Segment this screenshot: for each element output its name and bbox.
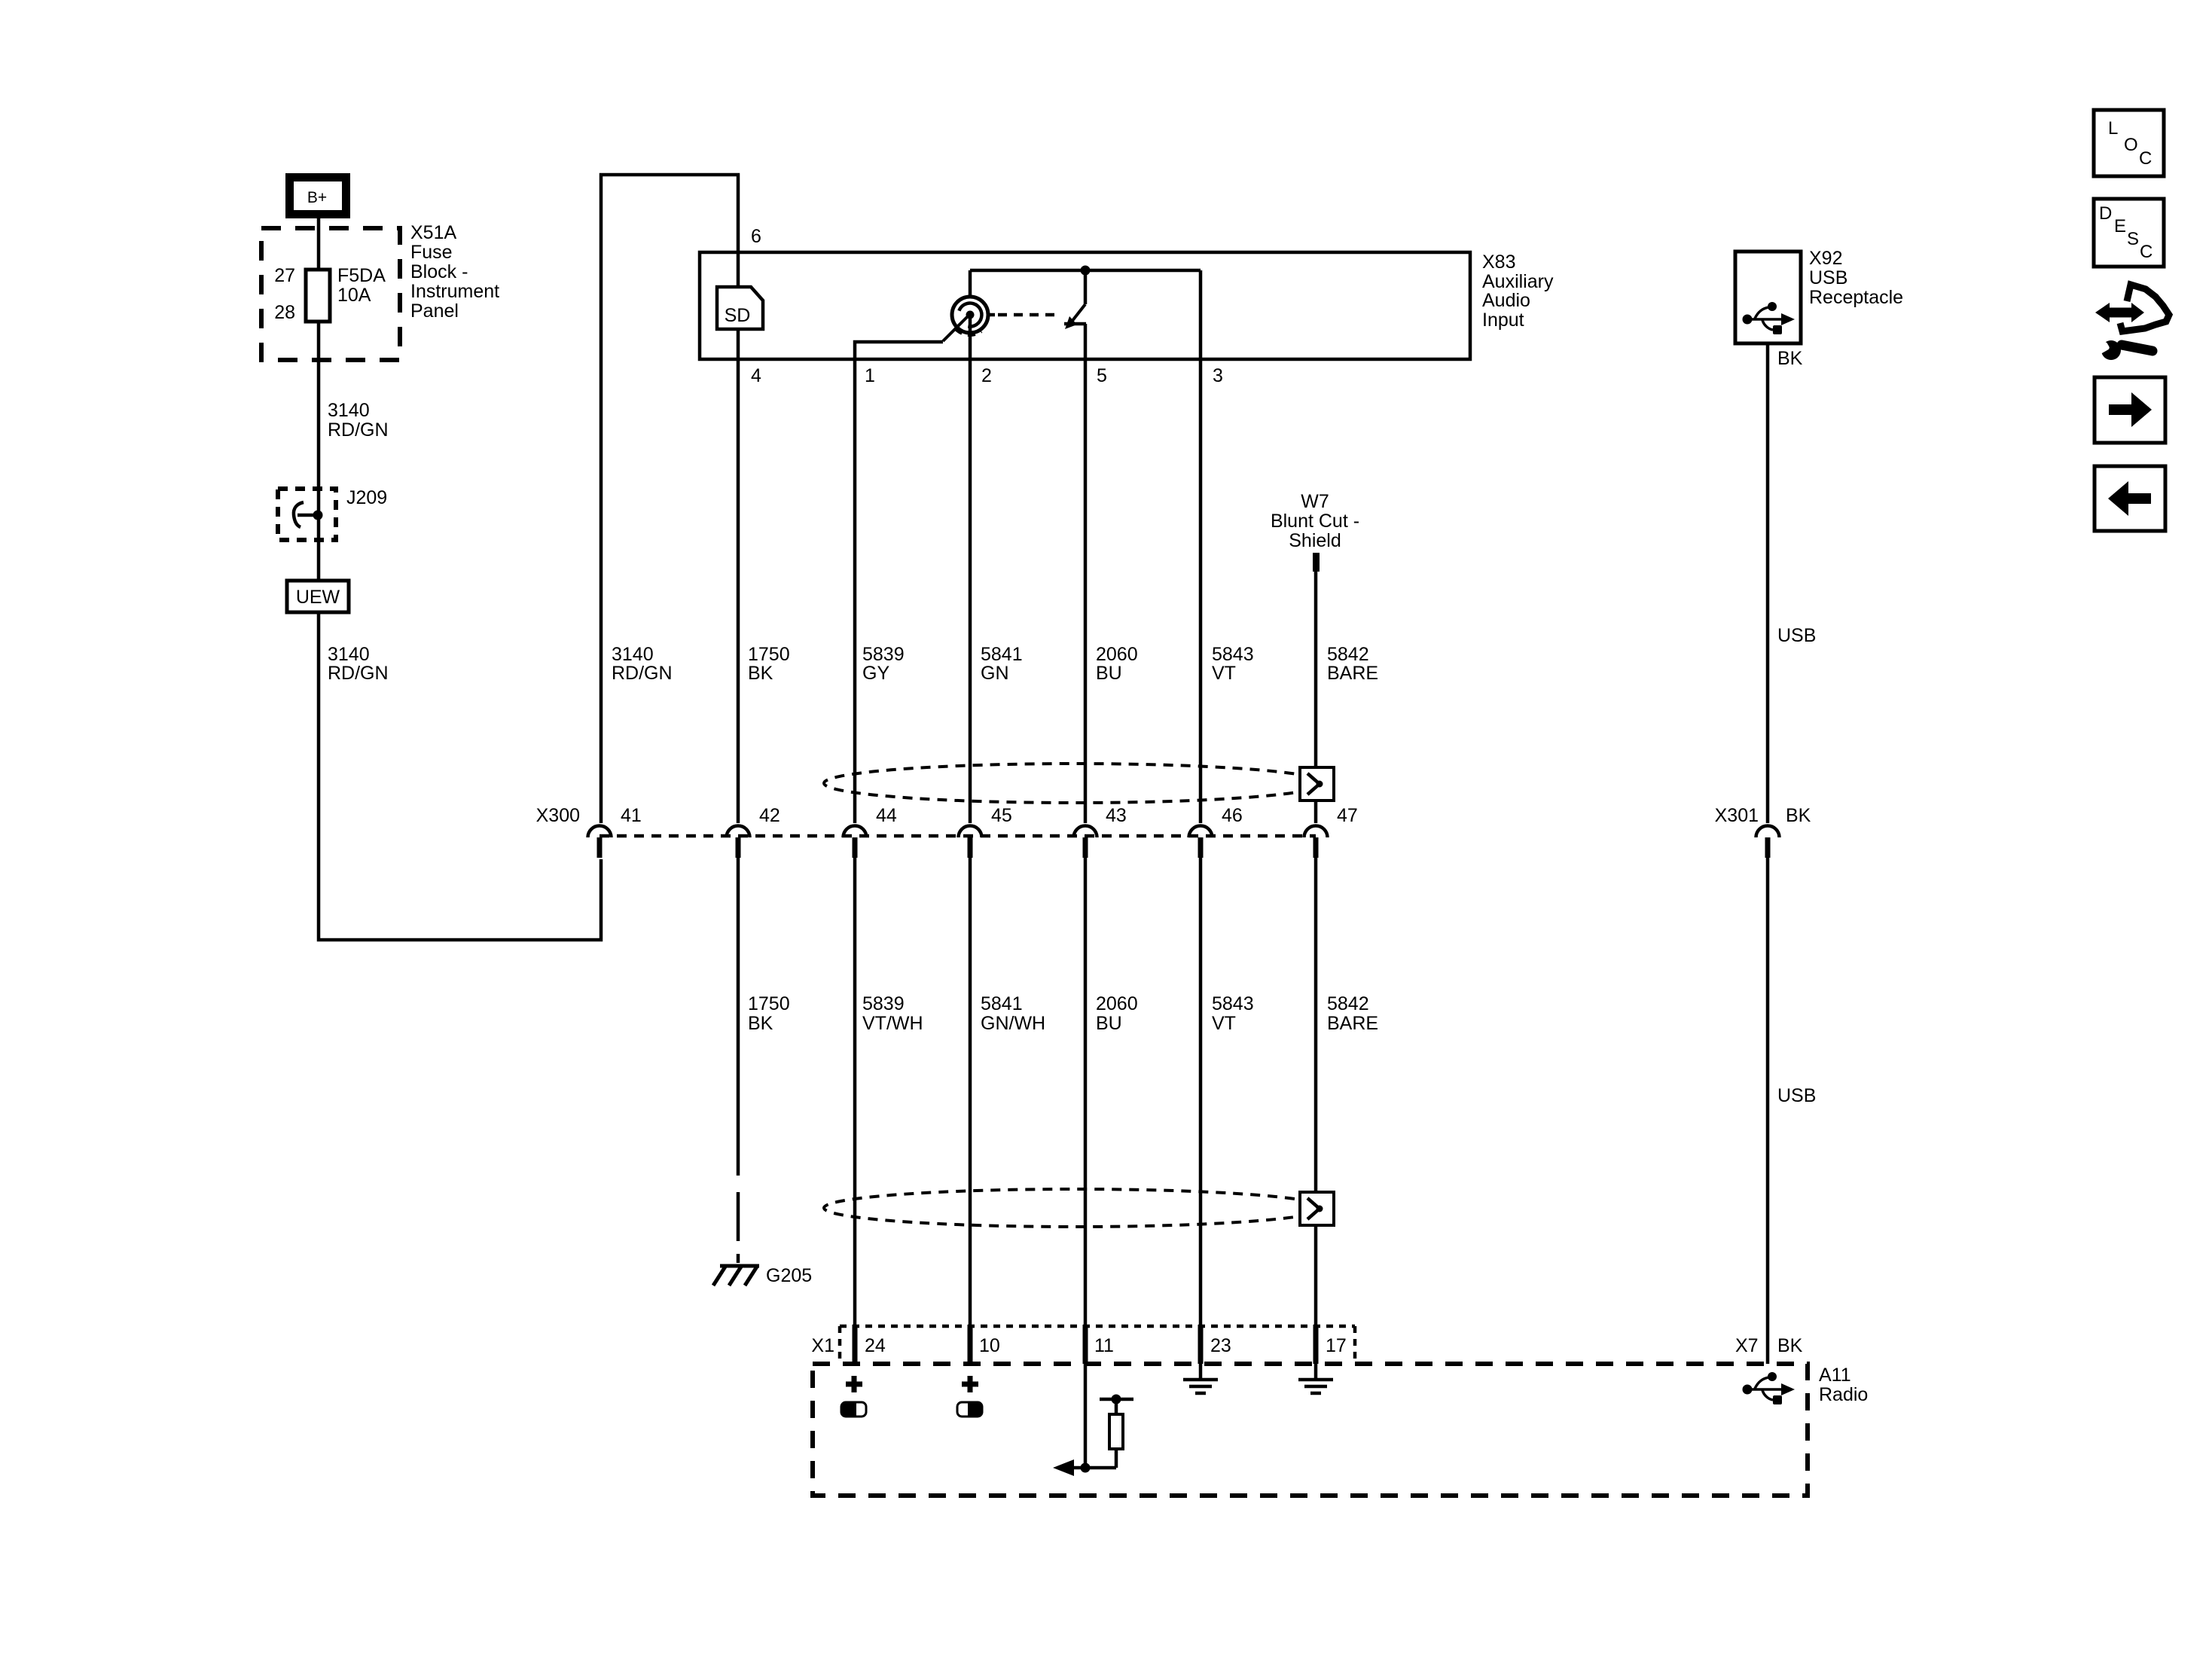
label A11 Radio [1819, 1365, 1868, 1405]
svg-text:3140: 3140 [612, 644, 654, 665]
svg-text:5841: 5841 [981, 993, 1023, 1014]
wire label 5842 BARE [1327, 993, 1378, 1034]
wire label 5842 BARE [1327, 644, 1378, 684]
svg-text:3140: 3140 [328, 644, 370, 665]
svg-text:5842: 5842 [1327, 644, 1369, 665]
svg-text:C: C [2140, 242, 2153, 262]
svg-text:X300: X300 [536, 805, 580, 826]
wire X83 pin 1 to X300 44 (5839 GY) [853, 359, 857, 823]
svg-text:C: C [2139, 148, 2152, 169]
svg-text:10A: 10A [337, 285, 371, 306]
svg-text:47: 47 [1337, 805, 1358, 826]
connector X1 pin 10 stub [968, 1325, 973, 1364]
icon box DESC [2094, 199, 2164, 267]
svg-text:X83: X83 [1482, 252, 1515, 273]
label X51A Fuse Block - Instrument Panel [410, 222, 499, 322]
wire fuse to UEW [317, 322, 321, 581]
wire X92 to X301 [1766, 343, 1770, 823]
connector X300 dashed row [600, 834, 1316, 838]
svg-text:3140: 3140 [328, 400, 370, 421]
splice J209 [278, 487, 387, 540]
wire 5842 BARE to X300 47 [1314, 571, 1318, 823]
svg-text:Fuse: Fuse [410, 242, 453, 263]
wire label 5843 VT [1212, 644, 1254, 684]
svg-text:BK: BK [748, 1013, 773, 1034]
svg-text:GN: GN [981, 663, 1009, 684]
svg-text:L: L [2108, 118, 2118, 139]
wire label 5843 VT [1212, 993, 1254, 1034]
wire 5839 VT/WH to X1 24 [853, 858, 857, 1326]
svg-text:5843: 5843 [1212, 993, 1254, 1014]
connector X1 pin 11 stub [1083, 1325, 1088, 1364]
wire label 2060 BU [1096, 993, 1138, 1034]
svg-text:2060: 2060 [1096, 993, 1138, 1014]
svg-text:Shield: Shield [1289, 530, 1341, 551]
speaker output + (pin 10) [957, 1376, 983, 1417]
connector X1 pin 23 stub [1198, 1325, 1204, 1364]
svg-text:G205: G205 [766, 1265, 812, 1286]
connector X301 [1756, 826, 1780, 858]
ground symbol (pin 23) [1183, 1364, 1218, 1393]
connector X300 pin 47 half-circle [1304, 826, 1328, 858]
svg-text:46: 46 [1222, 805, 1243, 826]
wire 5841 GN/WH to X1 10 [969, 858, 972, 1326]
svg-text:4: 4 [751, 365, 761, 386]
svg-text:5841: 5841 [981, 644, 1023, 665]
svg-text:RD/GN: RD/GN [328, 663, 389, 684]
shield loop (lower) [824, 1189, 1326, 1227]
ground G205 (chassis) [713, 1265, 812, 1286]
svg-text:Panel: Panel [410, 300, 459, 322]
connector X1 pin 24 stub [853, 1325, 858, 1364]
svg-text:6: 6 [751, 226, 761, 247]
svg-text:S: S [2127, 229, 2139, 249]
connector X92 USB Receptacle [1735, 252, 1801, 343]
svg-text:J209: J209 [346, 487, 387, 508]
fuse F5DA 10A [306, 265, 386, 322]
wire label 3140 RD/GN [612, 644, 673, 684]
svg-text:1750: 1750 [748, 993, 790, 1014]
wire label 1750 BK [748, 993, 790, 1034]
svg-text:41: 41 [621, 805, 642, 826]
svg-text:2: 2 [981, 365, 992, 386]
wire B+ to fuse [317, 218, 321, 271]
svg-text:USB: USB [1777, 1085, 1816, 1106]
svg-text:10: 10 [979, 1335, 1000, 1356]
svg-text:44: 44 [876, 805, 897, 826]
shield loop (upper) [824, 764, 1326, 803]
svg-text:B+: B+ [307, 189, 327, 206]
svg-text:5: 5 [1097, 365, 1107, 386]
connector X1 dotted box [840, 1326, 1355, 1364]
wire label 5839 VT/WH [862, 993, 923, 1034]
svg-text:USB: USB [1809, 267, 1847, 288]
svg-text:GN/WH: GN/WH [981, 1013, 1045, 1034]
svg-text:O: O [2124, 135, 2138, 155]
shield terminal (lower) [1300, 1192, 1334, 1225]
svg-text:Auxiliary: Auxiliary [1482, 271, 1554, 292]
connector X300 pin 43 half-circle [1074, 826, 1097, 858]
svg-text:BARE: BARE [1327, 663, 1378, 684]
svg-text:2060: 2060 [1096, 644, 1138, 665]
wire USB BK to radio X7 [1766, 858, 1770, 1364]
svg-text:1: 1 [865, 365, 875, 386]
svg-text:GY: GY [862, 663, 889, 684]
resistor network (pin 11) [1053, 1364, 1133, 1476]
svg-text:Block -: Block - [410, 261, 468, 282]
shield terminal (upper) [1300, 767, 1334, 801]
wire X83 pin 4 to X300 42 (1750 BK) [737, 359, 740, 823]
usb icon radio X7 [1743, 1372, 1796, 1404]
svg-text:RD/GN: RD/GN [612, 663, 673, 684]
svg-text:BK: BK [748, 663, 773, 684]
svg-text:28: 28 [274, 302, 295, 323]
svg-text:USB: USB [1777, 625, 1816, 646]
wire 5842 BARE to X1 17 [1314, 858, 1318, 1326]
svg-text:Input: Input [1482, 310, 1524, 331]
svg-text:E: E [2114, 216, 2126, 236]
wire label 5841 GN [981, 644, 1023, 684]
svg-text:W7: W7 [1301, 491, 1329, 512]
svg-text:A11: A11 [1819, 1365, 1851, 1386]
svg-text:BU: BU [1096, 663, 1122, 684]
svg-text:5842: 5842 [1327, 993, 1369, 1014]
svg-text:Instrument: Instrument [410, 281, 499, 302]
wire X83 pin 5 to X300 43 (2060 BU) [1084, 359, 1088, 823]
connector X300 pin 46 half-circle [1189, 826, 1213, 858]
svg-text:17: 17 [1326, 1335, 1347, 1356]
svg-text:42: 42 [759, 805, 780, 826]
svg-text:24: 24 [865, 1335, 886, 1356]
wire label 3140 RD/GN [328, 400, 389, 441]
svg-text:Receptacle: Receptacle [1809, 287, 1903, 308]
svg-text:27: 27 [274, 265, 295, 286]
connector X83 Auxiliary Audio Input box [700, 252, 1470, 359]
fuse block X51A dashed box [261, 228, 400, 360]
svg-text:43: 43 [1106, 805, 1127, 826]
svg-text:X51A: X51A [410, 222, 456, 243]
icon jumper/repair (double arrow with wrench) [2095, 285, 2169, 360]
svg-text:BARE: BARE [1327, 1013, 1378, 1034]
wire pin 6 to SD and pin 4 [737, 252, 740, 359]
icon box LOC [2094, 110, 2164, 176]
wire 2060 BU to X1 11 [1084, 858, 1088, 1326]
svg-text:X92: X92 [1809, 248, 1842, 269]
wire label 2060 BU [1096, 644, 1138, 684]
svg-text:VT: VT [1212, 1013, 1236, 1034]
svg-text:VT: VT [1212, 663, 1236, 684]
connector X300 pin 45 half-circle [959, 826, 982, 858]
svg-text:BK: BK [1777, 1335, 1803, 1356]
label W7 Blunt Cut - Shield [1271, 491, 1359, 551]
svg-text:Audio: Audio [1482, 290, 1530, 311]
label X92 USB Receptacle [1809, 248, 1903, 308]
blunt cut terminal W7 [1313, 553, 1320, 572]
wire X300 pin 41 up and over to X83 pin 6 [601, 175, 738, 823]
wire X83 pin 2 to X300 45 (5841 GN) [969, 359, 972, 823]
label X83 Auxiliary Audio Input [1482, 252, 1554, 331]
wire 5843 VT to X1 23 [1199, 858, 1203, 1326]
svg-text:BU: BU [1096, 1013, 1122, 1034]
usb icon X92 [1743, 302, 1796, 334]
icon box arrow right [2095, 377, 2165, 443]
svg-text:5839: 5839 [862, 993, 905, 1014]
connector X300 pin 41 half-circle [588, 826, 612, 858]
icon box arrow left [2095, 466, 2165, 531]
svg-text:23: 23 [1210, 1335, 1231, 1356]
svg-text:F5DA: F5DA [337, 265, 386, 286]
svg-text:45: 45 [991, 805, 1012, 826]
svg-text:1750: 1750 [748, 644, 790, 665]
svg-text:5843: 5843 [1212, 644, 1254, 665]
wire label 3140 RD/GN [328, 644, 389, 684]
svg-text:3: 3 [1213, 365, 1223, 386]
speaker output + (pin 24) [841, 1376, 866, 1417]
svg-text:X1: X1 [811, 1335, 834, 1356]
connector X300 pin 42 half-circle [727, 826, 750, 858]
ground symbol (pin 17) [1298, 1364, 1333, 1393]
svg-text:VT/WH: VT/WH [862, 1013, 923, 1034]
connector UEW [287, 581, 349, 612]
svg-text:Blunt Cut -: Blunt Cut - [1271, 511, 1359, 532]
svg-text:Radio: Radio [1819, 1384, 1868, 1405]
wire X83 pin 3 to X300 46 (5843 VT) [1199, 359, 1203, 823]
svg-text:SD: SD [725, 305, 751, 326]
wire X83 pin 1 jack tip [855, 342, 943, 359]
wire X83 pin 3 [1199, 270, 1203, 359]
svg-text:UEW: UEW [296, 587, 340, 608]
radio A11 dashed box [813, 1364, 1808, 1496]
svg-text:5839: 5839 [862, 644, 905, 665]
switch aux detect [970, 266, 1201, 360]
svg-text:BK: BK [1786, 805, 1811, 826]
connector X1 pin 17 stub [1313, 1325, 1319, 1364]
svg-text:D: D [2099, 203, 2112, 224]
svg-text:BK: BK [1777, 348, 1803, 369]
svg-text:X7: X7 [1735, 1335, 1759, 1356]
wire UEW down/right/up to X300 pin 41 [319, 612, 601, 940]
SD card [717, 287, 763, 329]
svg-text:11: 11 [1094, 1335, 1114, 1356]
wire label 5839 GY [862, 644, 905, 684]
svg-text:X301: X301 [1715, 805, 1759, 826]
power symbol B+ [290, 178, 346, 215]
svg-text:RD/GN: RD/GN [328, 419, 389, 441]
wire label 5841 GN/WH [981, 993, 1045, 1034]
wire 1750 BK to G205 [737, 858, 740, 1176]
connector X300 pin 44 half-circle [844, 826, 867, 858]
audio jack [943, 270, 1060, 359]
wire label 1750 BK [748, 644, 790, 684]
